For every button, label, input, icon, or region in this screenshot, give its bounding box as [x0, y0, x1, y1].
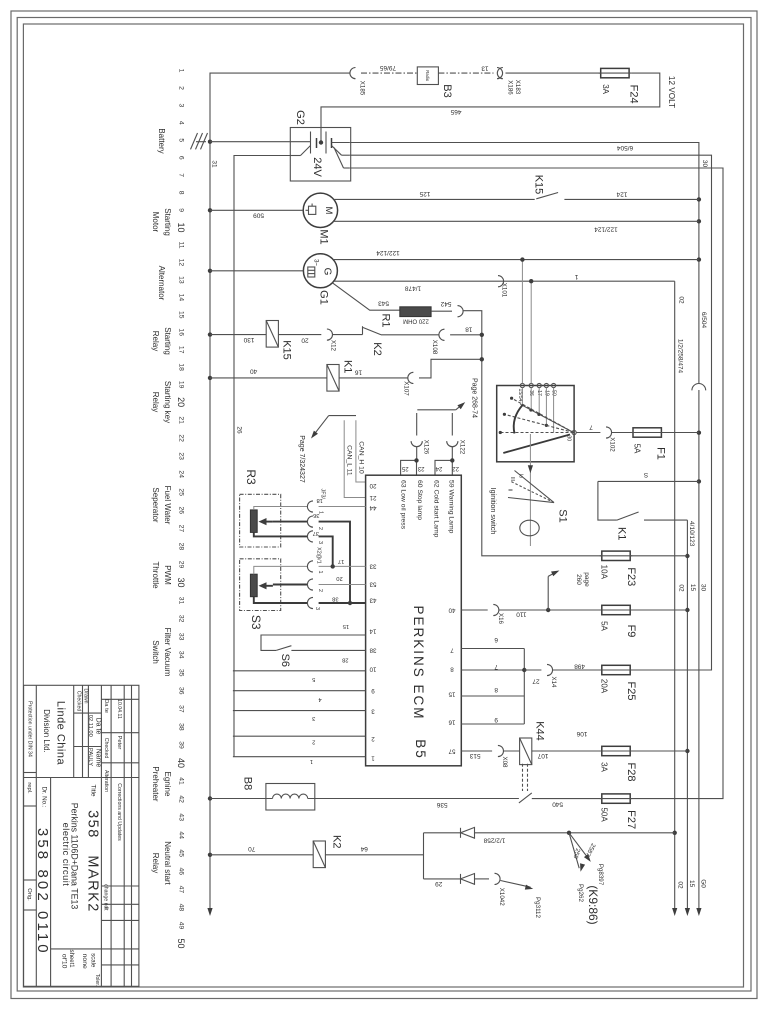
wire to X122: [451, 413, 453, 436]
wire R3 pin3 37: [254, 532, 308, 536]
connector X108: [439, 329, 445, 340]
svg-text:B5: B5: [413, 739, 428, 760]
svg-text:106: 106: [576, 730, 587, 737]
wire dash-dot radio feed 79/65: [361, 72, 417, 74]
svg-text:Iginition switch: Iginition switch: [489, 488, 498, 535]
svg-text:F27: F27: [625, 810, 637, 829]
svg-text:7: 7: [450, 647, 454, 654]
svg-text:Starting key: Starting key: [163, 381, 172, 423]
wire 64 K2 to diodes: [325, 854, 423, 856]
svg-text:CAN_H 10: CAN_H 10: [358, 441, 365, 474]
wire 27 to X14: [524, 669, 541, 671]
svg-text:38: 38: [178, 723, 185, 731]
svg-text:flt: flt: [103, 906, 109, 911]
svg-text:9: 9: [494, 716, 498, 723]
svg-text:3: 3: [314, 607, 320, 610]
svg-text:R3: R3: [244, 469, 258, 485]
lamp pin box 24/22: [435, 460, 452, 475]
svg-text:24: 24: [178, 470, 185, 478]
svg-text:F24: F24: [628, 85, 640, 104]
svg-text:23: 23: [178, 452, 185, 460]
svg-text:4/10/123: 4/10/123: [688, 521, 695, 547]
svg-text:59 Warning Lamp: 59 Warning Lamp: [447, 480, 454, 534]
svg-text:II: II: [507, 489, 513, 492]
wire M1 to rail 31: [210, 209, 303, 211]
wire R3 pin1 / 18 to ECM pin44: [254, 507, 308, 510]
wire S3 pin1 / 17 to ECM pin33: [254, 566, 308, 574]
svg-text:5A: 5A: [600, 621, 609, 631]
svg-text:40: 40: [250, 367, 258, 374]
svg-text:X185: X185: [359, 81, 366, 96]
fuse F23 10A: [602, 551, 630, 560]
junction on rail 31: [208, 332, 212, 336]
S1 dashed position rays: [500, 432, 573, 434]
svg-text:Corrections and Updates: Corrections and Updates: [116, 783, 122, 841]
svg-text:of'10: of'10: [61, 954, 68, 969]
wire 15 ECM pin14: [261, 635, 366, 650]
svg-text:15: 15: [178, 311, 185, 319]
wire 5 ECM pin10: [233, 670, 366, 672]
svg-text:29: 29: [435, 880, 443, 887]
svg-text:26: 26: [236, 426, 243, 434]
wire 70 rail31 to K2: [210, 854, 313, 856]
svg-text:6/504: 6/504: [616, 144, 633, 151]
svg-text:31: 31: [178, 597, 185, 605]
svg-text:79/65: 79/65: [379, 64, 396, 71]
svg-text:F23: F23: [625, 567, 637, 586]
page reference arrow 268-74: [417, 409, 456, 411]
svg-text:20: 20: [301, 336, 309, 343]
svg-text:R1: R1: [380, 313, 392, 327]
wire 542 R1 to F23 feeder: [431, 310, 452, 312]
svg-text:10: 10: [369, 666, 376, 673]
svg-text:Relay: Relay: [151, 331, 160, 351]
svg-text:X108: X108: [431, 340, 438, 355]
wire dash-dot 13: [438, 72, 493, 74]
svg-text:electric circuit: electric circuit: [61, 823, 71, 887]
svg-text:11: 11: [178, 241, 185, 248]
svg-text:18: 18: [316, 497, 322, 503]
connector X107: [408, 372, 414, 383]
junction on net 15: [685, 554, 689, 558]
svg-text:B8: B8: [242, 777, 254, 790]
svg-text:6: 6: [178, 156, 185, 160]
wire 110 pin40 to F9: [461, 609, 487, 611]
svg-text:CAN_L 11: CAN_L 11: [345, 445, 352, 476]
svg-text:X107: X107: [402, 381, 409, 396]
svg-text:K2: K2: [330, 835, 342, 848]
S1 actuator shaft: [529, 434, 531, 546]
svg-text:F28: F28: [625, 763, 637, 782]
svg-text:34: 34: [178, 651, 185, 659]
svg-text:38: 38: [332, 595, 338, 601]
svg-text:2: 2: [317, 527, 323, 530]
svg-text:110: 110: [516, 610, 527, 617]
svg-text:40: 40: [176, 758, 186, 768]
wire F1 to rail 30: [661, 432, 699, 434]
wire F23 to net15: [630, 555, 687, 557]
S3 resistor element: [250, 574, 257, 597]
svg-text:S: S: [643, 471, 648, 478]
svg-text:4: 4: [178, 121, 185, 125]
wire S3 wiper 20 to ECM pin53: [273, 584, 308, 586]
svg-text:18: 18: [178, 363, 185, 371]
fuse F24 3A: [601, 68, 629, 77]
svg-text:14: 14: [178, 294, 185, 302]
svg-text:Io: Io: [518, 474, 524, 478]
svg-text:21: 21: [178, 416, 185, 424]
svg-text:30: 30: [176, 577, 186, 587]
svg-text:3: 3: [312, 715, 315, 721]
junction on rail 30: [697, 479, 701, 483]
svg-text:48: 48: [178, 904, 185, 912]
wire R3 wiper 36: [273, 521, 308, 523]
svg-text:26: 26: [178, 507, 185, 515]
R3 wiper arrow: [262, 521, 273, 523]
svg-text:PWM: PWM: [163, 565, 172, 585]
svg-text:X16: X16: [497, 613, 504, 625]
wire S rail30 to K1 contact: [598, 480, 699, 482]
relay coil K1: [327, 365, 339, 392]
svg-text:K44: K44: [534, 721, 546, 741]
svg-text:8: 8: [494, 686, 498, 693]
svg-text:02: 02: [678, 584, 685, 592]
svg-text:1/478: 1/478: [404, 285, 421, 292]
svg-text:19: 19: [178, 381, 185, 389]
svg-text:49: 49: [178, 922, 185, 930]
wire 536 B8 to K44 contact: [308, 798, 519, 800]
title block vertical dividers: [35, 685, 37, 986]
wire CAN_H: [356, 420, 366, 482]
connector X102: [606, 427, 612, 438]
svg-text:10.04.11: 10.04.11: [116, 699, 122, 719]
svg-text:22: 22: [178, 434, 185, 442]
svg-text:33: 33: [369, 563, 376, 570]
svg-text:8: 8: [178, 191, 185, 195]
svg-text:509: 509: [253, 211, 264, 218]
svg-text:7: 7: [494, 663, 498, 670]
svg-text:16: 16: [355, 368, 363, 375]
title block horizontal dividers: [24, 777, 139, 779]
svg-text:Name: Name: [94, 749, 101, 768]
wire feed to S1 terminal 36: [530, 281, 532, 383]
svg-text:1/2/258: 1/2/258: [483, 836, 505, 843]
svg-text:X183: X183: [514, 80, 521, 95]
svg-text:543: 543: [378, 300, 389, 307]
connector X185: [350, 68, 356, 79]
svg-text:107: 107: [537, 752, 548, 759]
svg-text:Radio: Radio: [425, 70, 430, 82]
svg-text:44: 44: [369, 504, 376, 511]
svg-text:40: 40: [448, 607, 455, 614]
wire 543 G1 to R1: [332, 283, 399, 310]
svg-text:Battery: Battery: [157, 128, 166, 153]
svg-text:20: 20: [176, 397, 186, 407]
svg-text:44: 44: [178, 831, 185, 839]
wire 1/478 G1 to net 02: [334, 280, 675, 282]
svg-text:Starting: Starting: [163, 208, 172, 236]
junction net02/diodes: [673, 831, 677, 835]
R3 resistor element: [250, 510, 257, 533]
svg-text:F1: F1: [655, 447, 667, 460]
svg-text:15: 15: [343, 623, 349, 629]
svg-text:S1: S1: [557, 509, 569, 522]
relay coil K44: [520, 738, 532, 765]
svg-text:36: 36: [313, 512, 319, 518]
svg-text:2: 2: [312, 739, 315, 745]
svg-text:Filter Vacuum: Filter Vacuum: [163, 628, 172, 677]
battery cells: [310, 132, 312, 154]
diode V1 1/2/258: [424, 832, 461, 834]
fuse F28 3A: [602, 746, 630, 755]
svg-text:Pg262: Pg262: [577, 884, 584, 902]
svg-text:15: 15: [688, 880, 695, 888]
svg-text:31: 31: [211, 160, 218, 168]
svg-text:260: 260: [575, 574, 582, 585]
wire 16 to feeder: [419, 359, 482, 378]
arrow Pg3112: [501, 881, 531, 888]
page reference arrow 260: [547, 576, 549, 610]
Perkins ECM B5 box: [366, 475, 462, 766]
svg-text:63 Low oil press: 63 Low oil press: [400, 480, 407, 530]
wire 107 K44 to F28: [532, 750, 602, 752]
svg-text:Protection under DIN 34: Protection under DIN 34: [27, 701, 33, 757]
wire 124 to rail 30: [564, 198, 699, 200]
svg-text:220 OHM: 220 OHM: [403, 318, 429, 324]
svg-text:02: 02: [678, 296, 685, 304]
svg-text:Throttle: Throttle: [151, 561, 160, 589]
svg-text:X1042: X1042: [498, 888, 505, 906]
svg-text:X122: X122: [459, 440, 466, 455]
wire M1 125 to K15 contact: [334, 198, 535, 200]
svg-text:page: page: [583, 572, 590, 587]
wire CAN_L: [344, 420, 365, 497]
wire to X126: [416, 413, 418, 436]
wire 122/124 G1 to rail 30: [333, 259, 699, 261]
svg-text:15: 15: [689, 584, 696, 592]
svg-text:Pg8397: Pg8397: [597, 864, 604, 886]
wire M1 lower 122/124: [334, 220, 699, 222]
connector dome on rail 30: [697, 384, 701, 390]
svg-text:Da te: Da te: [103, 699, 109, 713]
wire 513 pin57 to X08: [461, 750, 492, 752]
wire rail 31 (ground bus): [210, 73, 350, 909]
svg-text:35: 35: [178, 669, 185, 677]
svg-text:1: 1: [371, 755, 375, 762]
svg-text:122/124: 122/124: [594, 226, 618, 233]
junction on rail 31: [208, 796, 212, 800]
battery tap diagonals: [301, 146, 311, 156]
junction on rail 30: [697, 197, 701, 201]
svg-text:X12: X12: [329, 340, 336, 352]
svg-text:X2@/1: X2@/1: [316, 547, 322, 564]
svg-text:02.11.00: 02.11.00: [87, 715, 93, 737]
preheater B8: [266, 784, 315, 811]
diode block frame: [423, 833, 425, 879]
svg-text:465: 465: [450, 108, 461, 115]
svg-text:1/2/258/474: 1/2/258/474: [677, 339, 684, 374]
junction on rail 31: [208, 376, 212, 380]
junction on net 15: [685, 608, 689, 612]
svg-text:498: 498: [574, 663, 585, 670]
svg-text:5: 5: [178, 138, 185, 142]
svg-text:358 802 0110: 358 802 0110: [34, 828, 51, 956]
svg-text:Orig.: Orig.: [26, 888, 32, 901]
svg-text:13: 13: [178, 276, 185, 284]
svg-text:Relay: Relay: [151, 392, 160, 412]
junction 18: [480, 333, 484, 337]
wire 540 to F27: [532, 798, 602, 800]
svg-text:M: M: [323, 207, 334, 215]
svg-text:1: 1: [574, 273, 578, 280]
svg-text:G1: G1: [318, 290, 330, 305]
svg-text:12 VOLT: 12 VOLT: [667, 76, 676, 108]
svg-text:6: 6: [494, 636, 498, 643]
svg-text:60 Stop lamp: 60 Stop lamp: [416, 480, 423, 520]
svg-text:(K9:86): (K9:86): [586, 885, 600, 924]
arrow 2587 Pg8397: [569, 833, 589, 860]
svg-text:3A: 3A: [601, 84, 610, 94]
svg-text:23: 23: [417, 465, 424, 471]
connector X08: [498, 745, 504, 756]
wire 2 ECM pin2: [233, 735, 366, 737]
wire F9 to net15: [630, 609, 687, 611]
wire 18 to X108: [381, 334, 439, 336]
S1 terminals: [520, 383, 524, 387]
wire battery minus to rail 31: [210, 141, 311, 143]
svg-text:42: 42: [178, 795, 185, 803]
wire feed to S1 terminal 15/54: [521, 260, 523, 384]
svg-text:70: 70: [248, 845, 256, 852]
svg-text:Pg3112: Pg3112: [534, 897, 541, 918]
svg-text:K1: K1: [342, 360, 354, 373]
svg-text:12: 12: [178, 259, 185, 267]
svg-text:14: 14: [369, 628, 376, 635]
wire rail31 to B8: [210, 798, 273, 800]
svg-text:K1: K1: [616, 527, 628, 540]
svg-text:50: 50: [176, 938, 186, 948]
fuse F1 5A: [633, 428, 661, 437]
svg-text:Checked: Checked: [75, 691, 81, 712]
diode V2 29: [424, 878, 461, 880]
sensor R3 dash-dot box: [240, 494, 281, 547]
svg-text:02: 02: [677, 881, 684, 889]
svg-text:Dr. No.:: Dr. No.:: [41, 787, 48, 808]
wire X12 to K2 contact: [333, 334, 363, 336]
svg-text:16: 16: [178, 328, 185, 336]
svg-text:G: G: [322, 268, 333, 276]
junction bracket: [522, 668, 526, 672]
svg-text:64: 64: [360, 845, 368, 852]
svg-text:3: 3: [371, 708, 375, 715]
wire rail 26: [234, 156, 301, 757]
resistor R1 220 OHM: [400, 307, 431, 317]
svg-text:540: 540: [552, 800, 563, 807]
svg-text:27: 27: [532, 678, 540, 685]
svg-text:Fuel Water: Fuel Water: [163, 486, 172, 525]
svg-text:536: 536: [436, 801, 447, 808]
connector X183 X186: [497, 68, 503, 79]
svg-text:Alteration: Alteration: [103, 770, 109, 792]
svg-text:Division Ltd.: Division Ltd.: [42, 709, 51, 753]
wire rail to F27: [350, 168, 723, 799]
svg-text:17: 17: [338, 558, 344, 564]
svg-text:1: 1: [178, 69, 185, 73]
junction 37/17: [331, 564, 335, 568]
svg-text:Da te: Da te: [94, 718, 101, 735]
switch contact K1: [617, 512, 639, 520]
wire K1 contact to fuses: [644, 519, 687, 521]
svg-text:125: 125: [419, 190, 430, 197]
svg-text:III: III: [509, 477, 515, 481]
svg-text:Checked: Checked: [103, 738, 109, 759]
svg-text:16: 16: [448, 719, 455, 726]
svg-text:Preheater: Preheater: [151, 766, 160, 801]
switch contact K44: [519, 793, 532, 803]
arrow 259: [569, 833, 579, 868]
svg-text:3: 3: [178, 104, 185, 108]
connector X101: [498, 276, 504, 287]
svg-text:M1: M1: [318, 229, 330, 244]
S1 key symbol: [520, 520, 539, 536]
svg-text:37: 37: [178, 705, 185, 713]
page reference arrow 7/324327: [329, 415, 356, 417]
svg-text:X186: X186: [507, 80, 514, 95]
svg-text:5A: 5A: [633, 444, 642, 454]
svg-text:130: 130: [243, 336, 254, 343]
svg-text:5: 5: [312, 676, 315, 682]
junction page260: [546, 608, 550, 612]
svg-text:G0: G0: [700, 879, 707, 888]
ignition switch S1 box: [497, 386, 574, 462]
ground symbol: [196, 141, 206, 143]
svg-text:25: 25: [178, 488, 185, 496]
junction 36/38: [348, 601, 352, 605]
svg-text:24V: 24V: [311, 157, 323, 177]
svg-text:X126: X126: [423, 440, 430, 455]
junction on rail 31: [208, 269, 212, 273]
fuse F27 50A: [602, 794, 630, 803]
switch S6: [276, 646, 291, 651]
svg-text:30: 30: [701, 160, 708, 168]
S3 wiper arrow: [262, 585, 273, 587]
radio B3: [417, 67, 438, 85]
svg-text:3: 3: [317, 541, 323, 544]
battery center tap: [319, 140, 323, 144]
fuse F9 5A: [602, 605, 630, 614]
svg-text:27: 27: [178, 525, 185, 533]
svg-text:1: 1: [317, 571, 323, 574]
svg-text:7: 7: [589, 424, 593, 431]
junction on rail 31: [208, 208, 212, 212]
svg-text:2: 2: [371, 735, 375, 742]
svg-text:3~: 3~: [313, 259, 319, 266]
svg-text:9: 9: [371, 687, 375, 694]
svg-text:33: 33: [178, 633, 185, 641]
svg-text:24: 24: [435, 465, 442, 471]
svg-text:F25: F25: [625, 682, 637, 701]
svg-text:10A: 10A: [600, 565, 609, 580]
svg-text:20: 20: [369, 482, 376, 489]
S1 wiper arc: [514, 405, 523, 434]
wire F28 to net15: [630, 750, 687, 752]
svg-text:358 MARK2: 358 MARK2: [84, 810, 100, 913]
svg-text:change no: change no: [103, 884, 109, 908]
wire battery plus through: [332, 142, 350, 144]
sensor S3 dash-dot box: [240, 559, 281, 611]
svg-text:17: 17: [178, 346, 185, 354]
wire 18 to feeder: [450, 334, 482, 336]
